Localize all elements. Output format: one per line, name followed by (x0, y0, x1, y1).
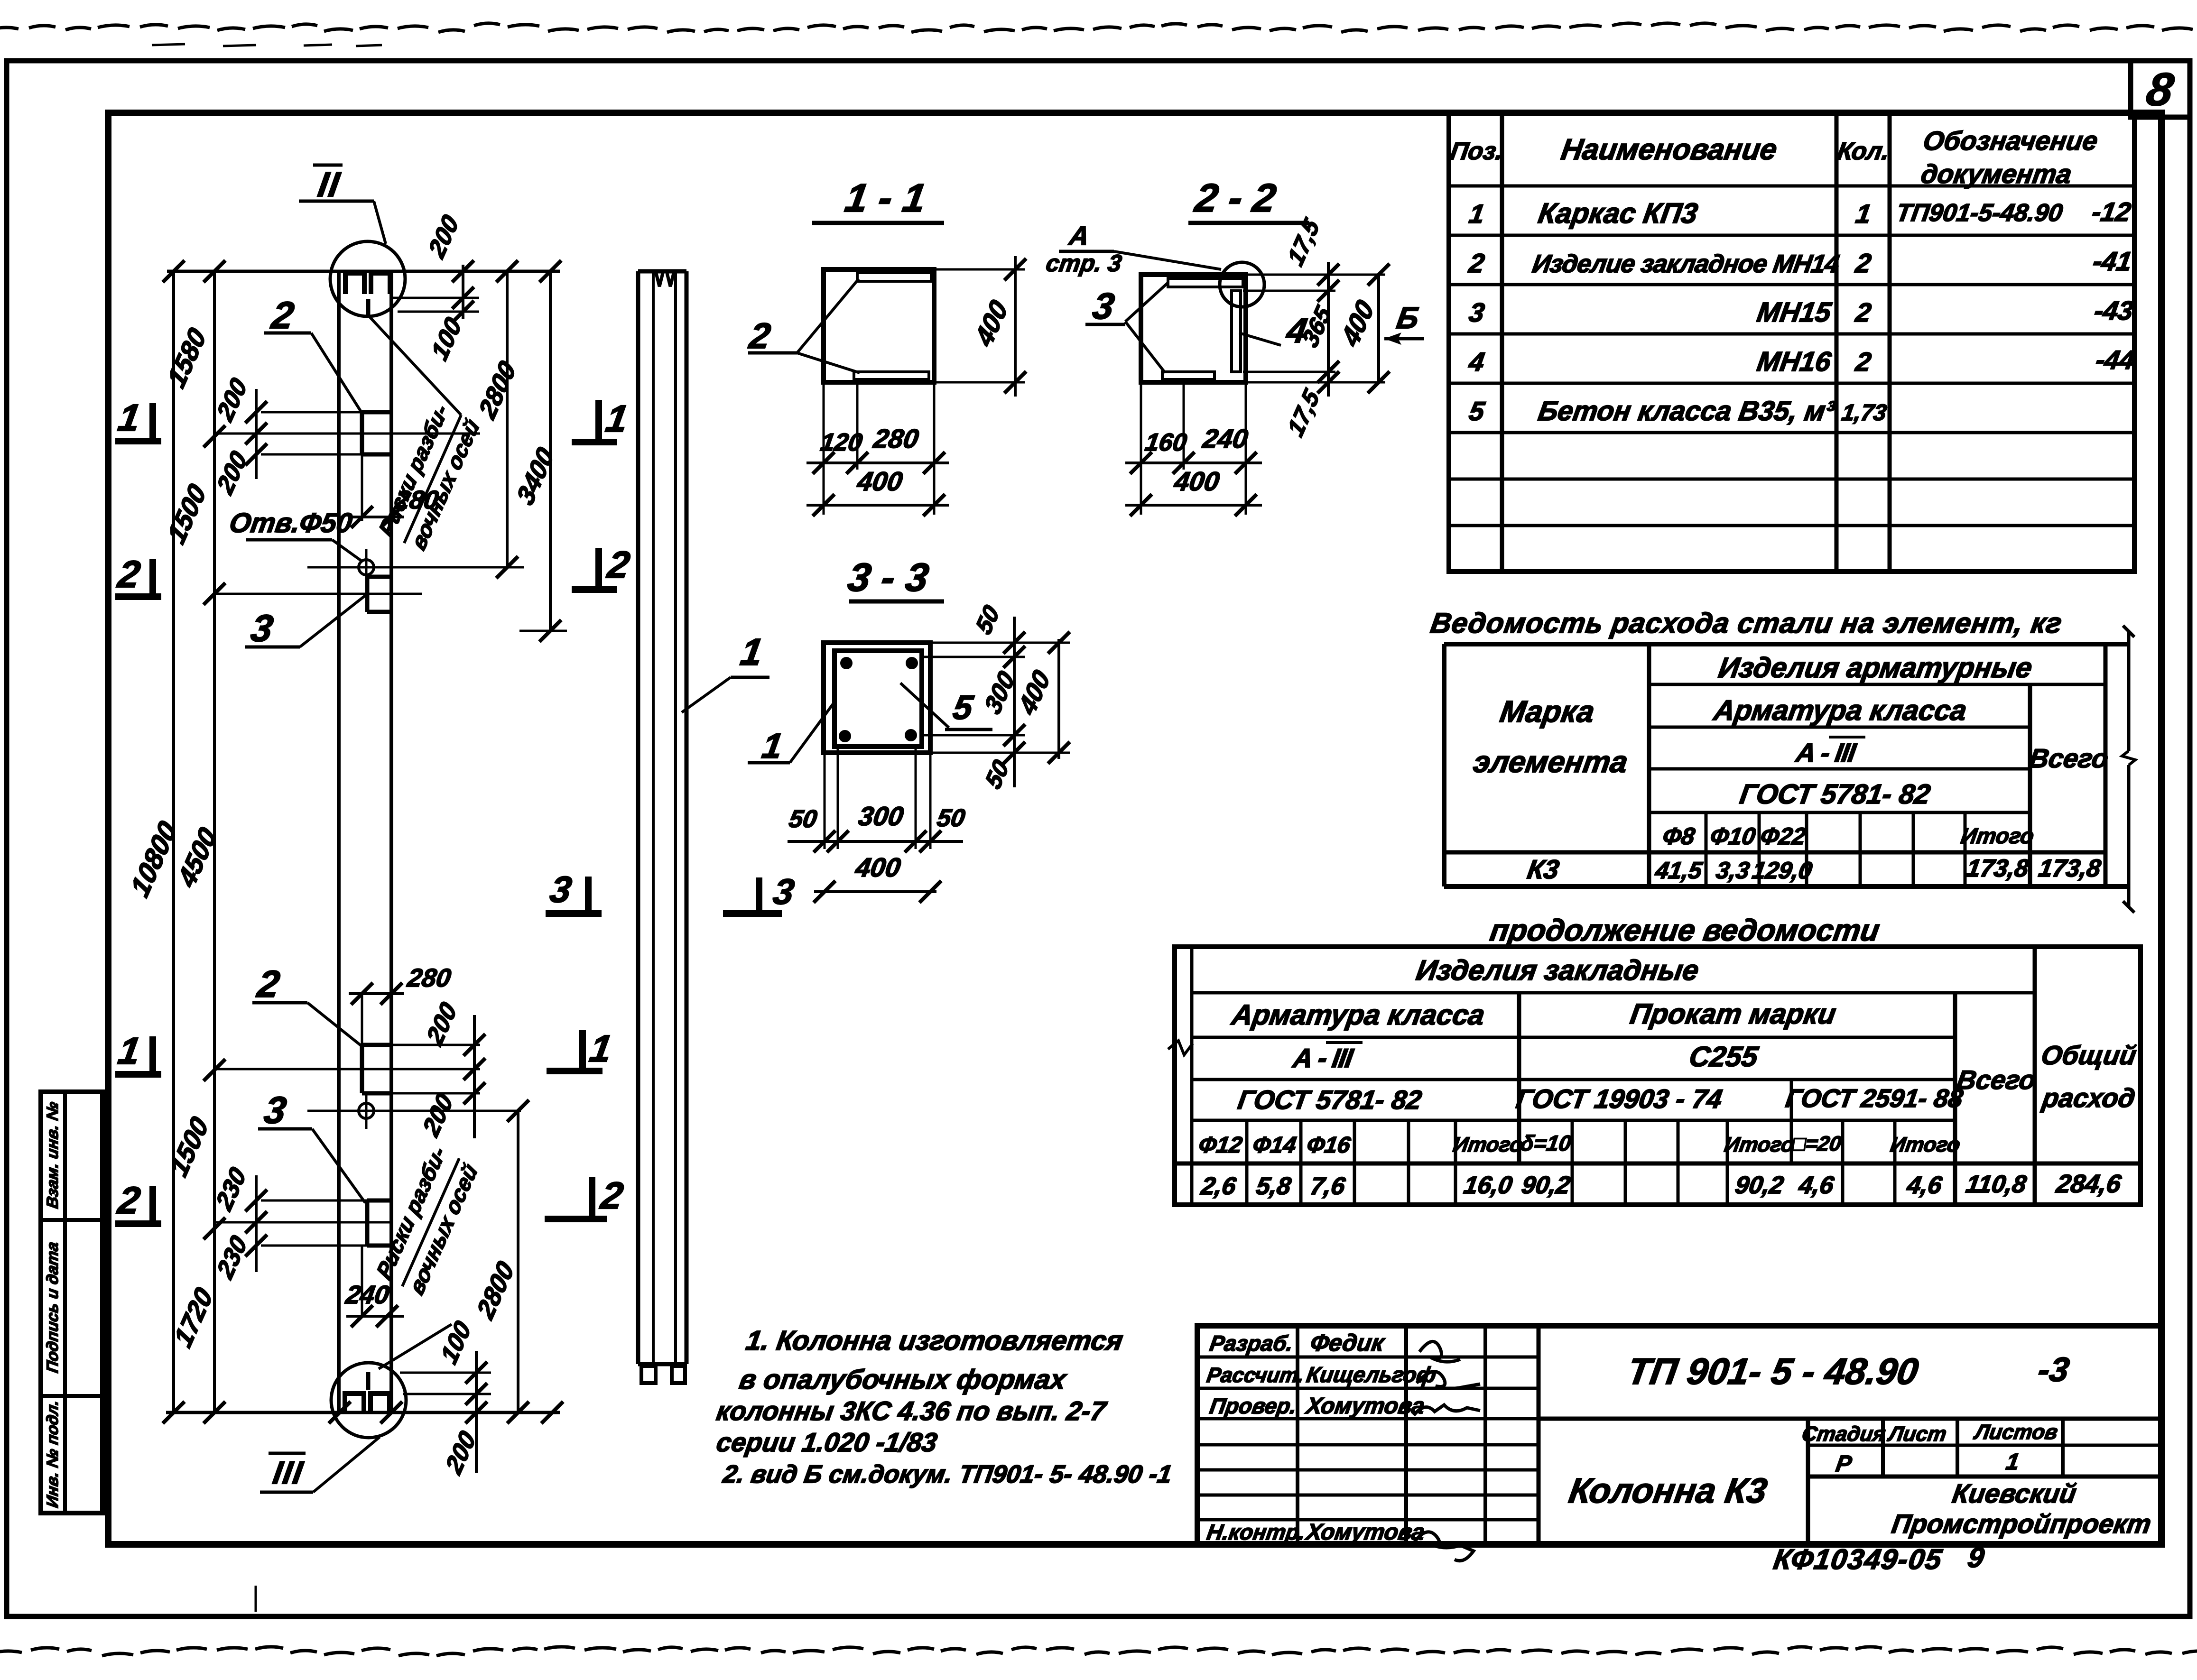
svg-text:II: II (315, 165, 343, 203)
svg-text:Итого: Итого (1451, 1133, 1524, 1156)
svg-text:300: 300 (856, 801, 905, 831)
svg-text:2: 2 (746, 316, 773, 356)
svg-text:ГОСТ 2591- 88: ГОСТ 2591- 88 (1784, 1084, 1965, 1113)
riski label lower (372, 1141, 482, 1299)
section 3-3 label 5 with leader (900, 683, 992, 729)
section mark 3 right of profile (723, 872, 797, 914)
steel t2 hdr GOST19903 (1514, 1084, 1724, 1114)
svg-text:284,6: 284,6 (2054, 1169, 2123, 1198)
spec header Kol (1835, 138, 1891, 165)
svg-text:стр. 3: стр. 3 (1044, 249, 1123, 277)
steel table 1 grid (1444, 644, 2129, 886)
svg-text:2: 2 (114, 1179, 143, 1221)
svg-text:колонны 3КС 4.36 по вып.: колонны 3КС 4.36 по вып. 2-7 (714, 1396, 1109, 1426)
svg-text:Взам. инв. №: Взам. инв. № (44, 1100, 62, 1209)
section 2-2 right plate (1232, 291, 1241, 372)
hole Otv50 lower (307, 1093, 521, 1129)
spec row 5 (1467, 396, 1889, 426)
steel t2 diam row (1197, 1131, 1962, 1158)
svg-text:240: 240 (1200, 424, 1250, 453)
steel t1 hdr Marka (1471, 694, 1630, 779)
embedded plate MN15 lower (367, 1200, 391, 1246)
svg-text:2: 2 (597, 1174, 626, 1217)
label Otv F50 (227, 508, 362, 562)
svg-text:Каркас КП3: Каркас КП3 (1536, 197, 1700, 229)
svg-text:Итого: Итого (1723, 1133, 1796, 1156)
title block stadiya val (1834, 1449, 2021, 1477)
svg-text:Ф8: Ф8 (1661, 822, 1697, 849)
dim label 1720 (169, 1282, 218, 1352)
svg-text:50: 50 (935, 804, 967, 832)
svg-text:ГОСТ 5781- 82: ГОСТ 5781- 82 (1236, 1085, 1424, 1115)
spec row 2 (1467, 246, 2134, 278)
dim 200-100 top right (391, 260, 479, 323)
title block Prover (1208, 1393, 1426, 1419)
svg-text:Федик: Федик (1308, 1329, 1387, 1356)
svg-text:1500: 1500 (165, 1111, 214, 1182)
svg-text:2. вид Б см.докум. ТП901- 5-: 2. вид Б см.докум. ТП901- 5- 48.90 -1 (721, 1460, 1174, 1488)
svg-text:5,8: 5,8 (1254, 1172, 1293, 1200)
svg-text:Изделие закладное МН14: Изделие закладное МН14 (1530, 250, 1841, 278)
svg-text:ГОСТ 5781- 82: ГОСТ 5781- 82 (1738, 779, 1932, 810)
svg-text:41,5: 41,5 (1653, 857, 1705, 884)
svg-text:5: 5 (950, 688, 976, 726)
svg-text:Промстройпроект: Промстройпроект (1890, 1509, 2153, 1539)
dim line 1580-1500-4500-1500-1720 (204, 260, 225, 1423)
steel t2 hdr C255 (1687, 1040, 1761, 1072)
section 1-1 title (812, 175, 944, 223)
dim label 200 lower a (422, 997, 462, 1051)
embedded plate MN14 upper (362, 412, 391, 454)
svg-text:в опалубочных формах: в опалубочных формах (737, 1364, 1069, 1395)
svg-text:3 - 3: 3 - 3 (845, 554, 932, 599)
section mark 1 lower right (547, 1027, 615, 1071)
svg-text:МН16: МН16 (1755, 346, 1833, 377)
svg-text:3,3: 3,3 (1715, 857, 1752, 884)
svg-text:Подпись и дата: Подпись и дата (44, 1241, 62, 1375)
svg-text:8: 8 (2143, 64, 2177, 115)
dim label 200 left a (212, 373, 252, 426)
title block doc number (1625, 1350, 1921, 1392)
left strip text Vzam (44, 1100, 62, 1209)
svg-text:Ф16: Ф16 (1305, 1132, 1353, 1158)
svg-text:серии 1.020 -1/83: серии 1.020 -1/83 (714, 1427, 939, 1457)
svg-text:110,8: 110,8 (1964, 1171, 2029, 1198)
svg-text:□=20: □=20 (1791, 1132, 1843, 1155)
svg-text:1: 1 (760, 726, 785, 765)
section 2-2 label A str3 (1044, 221, 1221, 277)
svg-text:Инв. № подл.: Инв. № подл. (44, 1399, 62, 1509)
dim label 1580 (162, 323, 212, 393)
svg-text:Хомутова: Хомутова (1303, 1519, 1427, 1545)
svg-text:2800: 2800 (472, 1256, 519, 1324)
svg-text:280: 280 (871, 424, 920, 453)
svg-text:7,6: 7,6 (1308, 1172, 1347, 1200)
svg-text:Прокат марки: Прокат марки (1628, 997, 1838, 1030)
steel t2 hdr GOST5781 (1236, 1085, 1424, 1115)
embedded plate MN14 lower (362, 1045, 391, 1093)
title block Razrab (1208, 1329, 1387, 1356)
svg-text:Колонна К3: Колонна К3 (1567, 1471, 1770, 1510)
column profile bottom feet (641, 1366, 685, 1383)
section mark 1 lower left (115, 1030, 161, 1074)
dim label 3400 (511, 442, 559, 510)
section 2-2 dims right (1243, 213, 1390, 441)
svg-text:160: 160 (1143, 429, 1189, 456)
title block org name (1890, 1478, 2153, 1539)
svg-text:продолжение ведомости: продолжение ведомости (1488, 913, 1882, 947)
steel t2 hdr prokat (1628, 997, 1838, 1030)
spec row 1 (1467, 197, 2133, 229)
steel t1 hdr armatura (1711, 694, 1969, 726)
svg-text:2: 2 (1467, 248, 1487, 278)
svg-text:400: 400 (1336, 295, 1380, 352)
label II with leader (299, 165, 386, 244)
section 3-3 square (824, 643, 930, 753)
label 2 upper with leader (264, 294, 362, 413)
svg-text:А - III: А - III (1290, 1043, 1356, 1073)
torn paper edge top second fragment (152, 44, 382, 46)
section mark 2 upper right (572, 544, 633, 590)
dim 100-200 bottom right (400, 1351, 491, 1473)
section 2-2 label 3 with leader (1085, 283, 1168, 373)
steel t2 hdr GOST2591 (1784, 1084, 1965, 1113)
svg-text:1. Колонна изготовляется: 1. Колонна изготовляется (744, 1325, 1125, 1356)
svg-text:129,0: 129,0 (1751, 857, 1814, 884)
svg-text:230: 230 (212, 1231, 252, 1284)
dim label 230 b (212, 1231, 252, 1284)
svg-text:400: 400 (970, 295, 1013, 352)
section 1-1 top plate (857, 273, 931, 281)
svg-text:400: 400 (855, 466, 904, 496)
svg-text:Ф10: Ф10 (1708, 822, 1758, 849)
section 1-1 bottom plate (854, 372, 929, 379)
svg-text:3: 3 (770, 872, 797, 912)
svg-text:Изделия арматурные: Изделия арматурные (1716, 651, 2034, 683)
note line 5 (721, 1460, 1174, 1488)
torn paper edge top (0, 23, 2197, 32)
svg-text:-12: -12 (2090, 197, 2133, 227)
svg-text:Листов: Листов (1972, 1421, 2059, 1444)
title block stadiya hdr (1800, 1421, 2059, 1446)
svg-text:Арматура класса: Арматура класса (1711, 694, 1969, 726)
dim label 2800 upper (473, 356, 521, 424)
svg-text:1: 1 (115, 1030, 143, 1072)
left strip boxes (41, 1092, 102, 1513)
detail circle II (330, 241, 405, 317)
spec row 3 (1467, 295, 2135, 328)
label 2 lower with leader (252, 963, 362, 1046)
title block signatures (1414, 1341, 1480, 1560)
leader to riski upper (370, 317, 461, 415)
top extension line (167, 270, 560, 273)
svg-text:КФ10349-05: КФ10349-05 (1771, 1543, 1945, 1575)
svg-text:5: 5 (1467, 396, 1487, 426)
dim label 200 lower b (418, 1089, 458, 1142)
svg-text:МН15: МН15 (1755, 297, 1834, 328)
svg-text:Разраб.: Разраб. (1208, 1331, 1295, 1356)
svg-text:Ф14: Ф14 (1251, 1132, 1298, 1158)
svg-text:Поз.: Поз. (1448, 138, 1505, 165)
svg-text:Ф22: Ф22 (1759, 822, 1808, 849)
svg-text:-3: -3 (2035, 1350, 2072, 1388)
svg-text:1: 1 (603, 397, 631, 440)
section mark 1 upper right (572, 397, 631, 442)
svg-text:3: 3 (261, 1089, 289, 1131)
svg-text:ТП 901- 5 - 48.90: ТП 901- 5 - 48.90 (1625, 1350, 1921, 1392)
svg-text:Обозначение: Обозначение (1921, 126, 2100, 156)
svg-text:4: 4 (1467, 347, 1487, 377)
svg-text:240: 240 (343, 1280, 391, 1309)
steel t2 hdr Obschiy (2039, 1040, 2139, 1113)
svg-text:элемента: элемента (1471, 745, 1630, 779)
svg-text:документа: документа (1919, 159, 2074, 189)
title block sheet suffix (2035, 1350, 2072, 1388)
svg-text:Рассчит.: Рассчит. (1205, 1364, 1306, 1387)
svg-text:1 - 1: 1 - 1 (842, 175, 929, 220)
svg-text:III: III (270, 1455, 306, 1491)
svg-text:1580: 1580 (162, 323, 212, 393)
steel t1 hdr izdeliya (1716, 651, 2034, 683)
spec header Poz (1448, 138, 1505, 165)
svg-text:1500: 1500 (162, 479, 212, 549)
steel t1 hdr Vsego (2027, 743, 2110, 773)
left strip text Podpis (44, 1241, 62, 1375)
title block grid (1197, 1326, 2161, 1544)
section 3-3 label 1 lower with leader (748, 704, 833, 766)
section 3-3 dims right (924, 600, 1070, 794)
svg-text:Отв.Ф50: Отв.Ф50 (227, 508, 354, 538)
svg-text:Лист: Лист (1886, 1422, 1948, 1446)
steel t2 break mark (1168, 1041, 1193, 1055)
document code KF (1771, 1541, 1987, 1575)
svg-text:Ведомость расхода стали на: Ведомость расхода стали на элемент, кг (1428, 607, 2065, 639)
leader to riski lower (379, 1324, 452, 1369)
dim label 230 a (211, 1163, 251, 1216)
dim line 10800 (163, 260, 185, 1423)
svg-text:2: 2 (604, 544, 633, 586)
axis line 4500 lower (214, 1068, 480, 1071)
section 1-1 bottom dims (806, 382, 949, 516)
svg-text:Кол.: Кол. (1835, 138, 1891, 165)
svg-text:К3: К3 (1525, 854, 1561, 884)
svg-text:1: 1 (587, 1027, 615, 1070)
svg-text:90,2: 90,2 (1520, 1172, 1572, 1199)
svg-text:1: 1 (2004, 1449, 2021, 1475)
svg-text:Б: Б (1394, 301, 1421, 335)
specification table grid (1449, 114, 2134, 572)
dim label 4500 (172, 822, 222, 893)
section 3-3 bottom dims (787, 747, 967, 903)
steel t2 hdr AIII (1290, 1043, 1363, 1073)
svg-text:Арматура класса: Арматура класса (1229, 998, 1487, 1031)
svg-text:Общий: Общий (2039, 1040, 2139, 1070)
dim line 2800 upper (474, 260, 524, 578)
svg-text:4,6: 4,6 (1905, 1172, 1944, 1199)
svg-text:200: 200 (422, 997, 462, 1051)
svg-text:расход: расход (2039, 1083, 2137, 1113)
svg-text:Всего: Всего (2027, 743, 2110, 773)
svg-text:Стадия: Стадия (1800, 1422, 1887, 1446)
svg-text:2: 2 (268, 294, 297, 336)
spec header Oboznachenie (1919, 126, 2100, 189)
svg-text:2: 2 (1854, 297, 1873, 327)
svg-text:2: 2 (114, 553, 143, 595)
section mark 2 upper left (114, 553, 161, 597)
page number 8 (2143, 64, 2177, 115)
svg-text:Всего: Всего (1955, 1065, 2038, 1095)
dim label 200 left b (212, 446, 252, 499)
dim 230-230 lower left (216, 1175, 391, 1272)
inner drawing frame (108, 113, 2161, 1544)
svg-text:173,8: 173,8 (2037, 855, 2103, 882)
dim 200-200 upper left (216, 389, 480, 479)
svg-text:-41: -41 (2091, 246, 2134, 276)
dim label 100 bottom (436, 1316, 476, 1369)
svg-text:Марка: Марка (1498, 694, 1597, 729)
svg-text:1: 1 (738, 631, 766, 673)
svg-text:200: 200 (424, 210, 464, 263)
dim 280 upper (349, 454, 441, 528)
svg-text:-43: -43 (2092, 295, 2135, 325)
column profile outline (638, 271, 686, 1364)
svg-text:16,0: 16,0 (1462, 1172, 1514, 1199)
svg-text:3: 3 (1090, 285, 1117, 326)
steel t2 hdr zakladnye (1414, 954, 1701, 986)
svg-text:1: 1 (1854, 199, 1873, 229)
svg-text:Итого: Итого (1889, 1133, 1962, 1156)
dim 240 lower (343, 1246, 404, 1327)
column elevation outline (339, 271, 391, 1412)
svg-text:ГОСТ 19903 - 74: ГОСТ 19903 - 74 (1514, 1084, 1724, 1114)
section 2-2 square (1141, 275, 1246, 382)
svg-text:δ=10: δ=10 (1519, 1131, 1573, 1155)
svg-text:-44: -44 (2094, 345, 2137, 375)
steel t1 hdr GOST (1738, 779, 1932, 810)
steel t1 diam row (1661, 822, 2036, 849)
dim label 10800 (125, 816, 182, 903)
torn paper edge bottom (0, 1647, 2197, 1656)
bottom extension line (166, 1402, 563, 1423)
note line 2 (737, 1364, 1069, 1395)
svg-text:1720: 1720 (169, 1282, 218, 1352)
section 3-3 stirrup (834, 651, 922, 747)
label III with leader (260, 1437, 380, 1492)
title block Nkontr (1205, 1519, 1426, 1545)
dim label 200 bottom (441, 1426, 481, 1479)
svg-text:1: 1 (115, 397, 143, 439)
svg-text:400: 400 (1172, 466, 1221, 496)
section 2-2 bottom dims (1125, 382, 1262, 516)
steel table 2 title (1488, 913, 1882, 947)
section 2-2 label 4 with leader (1239, 311, 1310, 350)
svg-text:2: 2 (254, 963, 283, 1005)
spec header Naimenovanie (1559, 133, 1779, 166)
dim label 2800 lower (472, 1256, 519, 1324)
stray scan mark (255, 1586, 257, 1612)
svg-text:Бетон класса В35, м³: Бетон класса В35, м³ (1536, 396, 1837, 426)
dim label 1500 upper (162, 479, 212, 549)
dim label 200 top (424, 210, 464, 263)
page number box (2131, 61, 2190, 117)
svg-text:2 - 2: 2 - 2 (1191, 175, 1279, 220)
section 1-1 dim 400 right (934, 256, 1026, 397)
section 2-2 bottom plate (1162, 372, 1214, 379)
section 3-3 title (845, 554, 944, 601)
svg-text:Изделия закладные: Изделия закладные (1414, 954, 1701, 986)
svg-text:2: 2 (1854, 248, 1873, 278)
left strip text Inv (44, 1399, 62, 1509)
svg-text:173,8: 173,8 (1965, 855, 2031, 882)
steel t2 hdr armatura (1229, 998, 1487, 1031)
svg-text:А: А (1066, 221, 1091, 250)
detail circle III (331, 1363, 406, 1438)
svg-text:2: 2 (1854, 347, 1873, 377)
section mark 3 left of profile (546, 868, 602, 914)
steel table title (1428, 607, 2065, 639)
svg-text:1: 1 (1467, 199, 1487, 229)
svg-text:Хомутова: Хомутова (1303, 1393, 1427, 1419)
riski label upper (374, 399, 484, 554)
section 1-1 label 2 with leader (746, 279, 860, 373)
label 3 lower with leader (258, 1089, 365, 1203)
label 3 upper with leader (245, 595, 366, 650)
svg-text:Киевский: Киевский (1950, 1478, 2078, 1508)
steel t1 break line (2122, 626, 2135, 913)
section mark 2 lower left (114, 1179, 161, 1224)
axis line 1500 upper (216, 593, 422, 595)
svg-text:50: 50 (971, 600, 1004, 639)
section 3-3 rebar dots (839, 657, 918, 742)
steel table 2 grid (1175, 947, 2141, 1205)
dim 200-200 lower right (391, 1015, 485, 1138)
dim label 100 top (427, 313, 467, 365)
svg-text:ТП901-5-48.90: ТП901-5-48.90 (1894, 199, 2065, 227)
section 1-1 square (824, 269, 934, 382)
svg-text:Итого: Итого (1959, 823, 2036, 848)
section mark 1 upper left (115, 397, 161, 441)
svg-text:2,6: 2,6 (1199, 1172, 1238, 1200)
title block Rasschit (1205, 1362, 1438, 1387)
svg-text:230: 230 (211, 1163, 251, 1216)
svg-text:120: 120 (819, 429, 864, 456)
label 1 profile with leader (682, 631, 769, 712)
svg-text:3: 3 (248, 607, 276, 649)
svg-text:4,6: 4,6 (1797, 1172, 1836, 1199)
svg-text:200: 200 (212, 373, 252, 426)
svg-text:3400: 3400 (511, 442, 559, 510)
title block Kolonna K3 (1567, 1471, 1770, 1510)
steel t2 data row (1199, 1169, 2123, 1200)
dim label 1500 lower (165, 1111, 214, 1182)
dim 280 lower (349, 963, 453, 1045)
svg-text:3: 3 (547, 868, 575, 910)
svg-text:Р: Р (1834, 1451, 1854, 1477)
svg-text:90,2: 90,2 (1733, 1172, 1786, 1199)
section 2-2 title (1188, 175, 1309, 223)
section mark 2 lower right (545, 1174, 626, 1219)
svg-text:200: 200 (212, 446, 252, 499)
note line 4 (714, 1427, 939, 1457)
svg-text:Ф12: Ф12 (1197, 1132, 1244, 1158)
embedded plate MN15 upper (367, 577, 391, 612)
spec row 4 (1467, 345, 2137, 377)
svg-text:1,73: 1,73 (1840, 400, 1889, 425)
section 2-2 top plate (1168, 278, 1243, 287)
svg-text:3: 3 (1467, 297, 1487, 327)
column profile top wedges (656, 273, 674, 286)
svg-text:100: 100 (436, 1316, 476, 1369)
